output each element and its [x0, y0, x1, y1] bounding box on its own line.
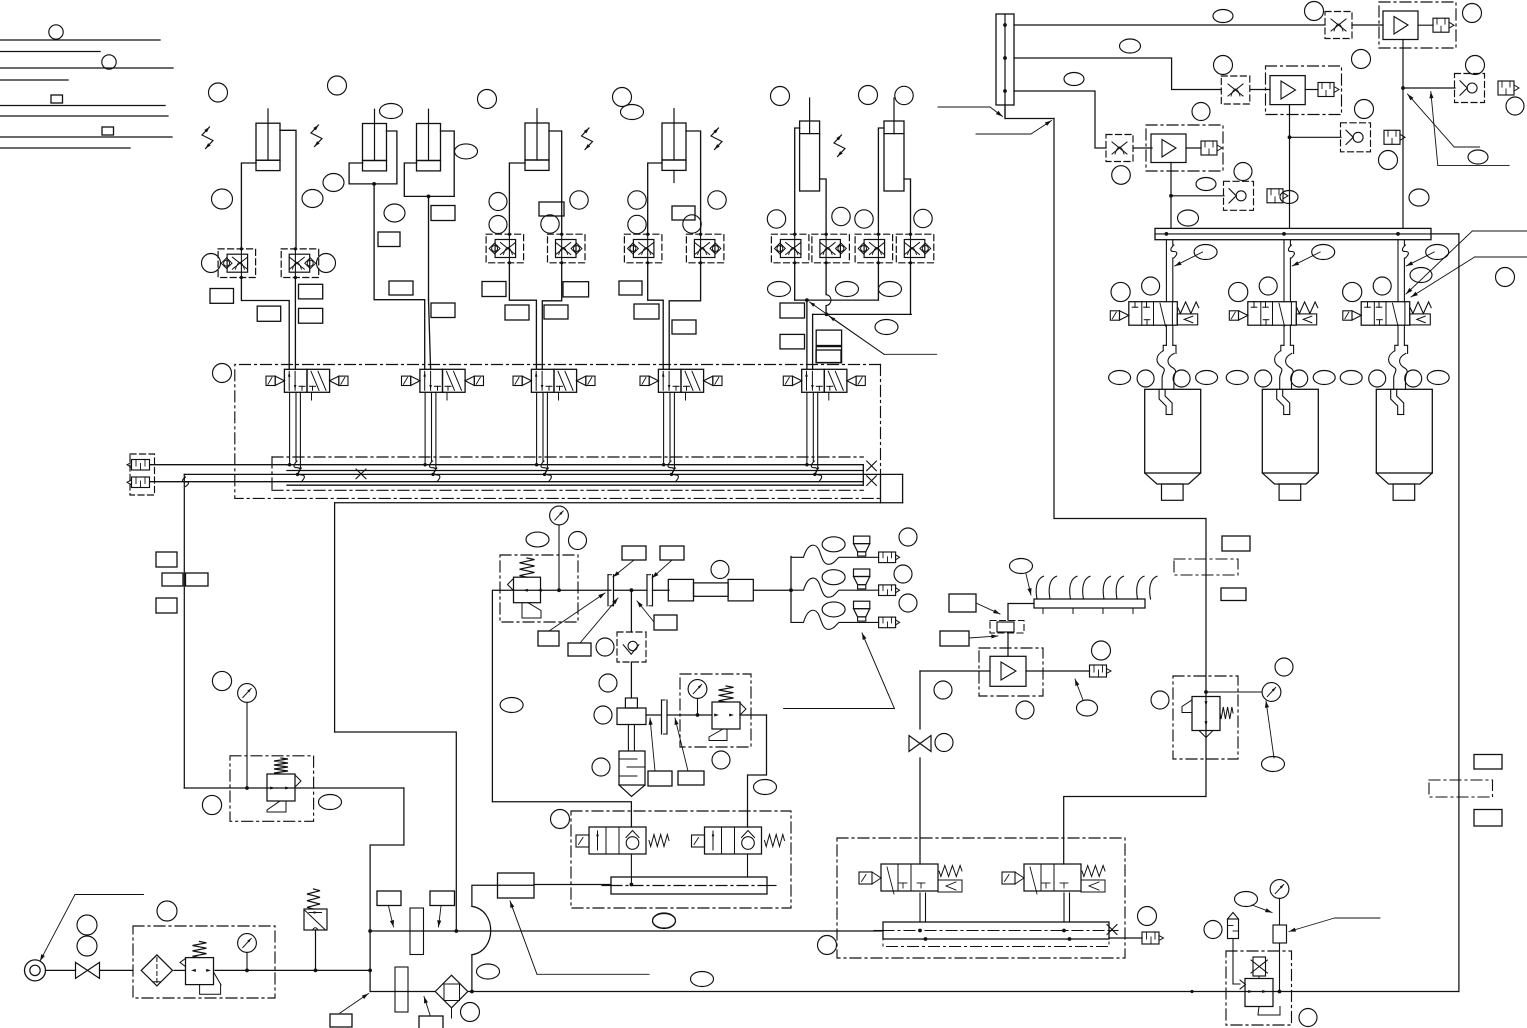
valve VB1 [881, 864, 938, 891]
label [156, 598, 177, 613]
label [377, 891, 401, 906]
line through B2 [500, 589, 611, 591]
label [505, 305, 529, 320]
balloon [599, 674, 617, 692]
plug X [1107, 925, 1117, 935]
wire block to bar [534, 884, 611, 886]
manifold bar MB1 [611, 877, 767, 894]
balloon [1077, 700, 1098, 716]
hose pipes H2 [1283, 325, 1285, 345]
label [186, 573, 209, 586]
balloon [822, 602, 845, 617]
wire [1007, 633, 1009, 656]
valve V1 exhaust stub [311, 392, 313, 400]
label [660, 546, 684, 560]
junction [372, 182, 376, 186]
wire A6 rod port [795, 128, 800, 235]
vacuum valve VS2 [1248, 302, 1297, 326]
FRL vent [214, 972, 222, 985]
manifold bar MB2 [883, 922, 1109, 939]
label [299, 284, 323, 299]
gauge PG6 [1270, 880, 1289, 899]
balloon [628, 191, 646, 209]
branch corner [492, 590, 500, 802]
nozzle silencer NS2 [879, 585, 896, 596]
vibration symbol N2 [311, 125, 322, 147]
muffler M1 [619, 751, 645, 785]
cylinder A4 [525, 123, 549, 160]
balloon [461, 1003, 480, 1022]
balloon [1373, 277, 1391, 295]
balloon [914, 209, 932, 227]
junction [427, 195, 431, 199]
label [672, 206, 695, 220]
booster BST3 [1146, 125, 1223, 171]
balloon [879, 282, 902, 297]
balloon [1138, 907, 1157, 926]
assembly boundary VA [571, 811, 791, 908]
balloon [1426, 245, 1449, 260]
relief branch [315, 930, 317, 970]
balloon [319, 795, 342, 810]
leader [1266, 701, 1274, 758]
gauge stem [558, 525, 560, 590]
balloon [526, 532, 549, 547]
plug X right 1 [867, 461, 877, 471]
wire [754, 589, 791, 591]
balloon [323, 174, 344, 192]
main line to right [468, 991, 1459, 993]
FRL wire [174, 969, 185, 971]
jump arc line [472, 885, 534, 906]
valve V4 exhaust stub [685, 392, 687, 400]
label [419, 1016, 443, 1028]
bus boundary [272, 456, 863, 458]
leader [675, 718, 688, 771]
balloon [613, 88, 632, 107]
air knife feed [1008, 604, 1034, 621]
flow control F6b [812, 234, 850, 263]
wire [631, 589, 647, 591]
leader [652, 560, 672, 578]
wire to check [1171, 195, 1224, 197]
cylinder A3 [417, 124, 441, 161]
wire chain1 [1014, 24, 1325, 26]
booster BST2 [1266, 66, 1342, 115]
wire chain2 [1014, 58, 1221, 90]
balloon [1305, 2, 1324, 21]
air source [25, 960, 46, 981]
balloon [569, 532, 587, 550]
flow control F1a [218, 249, 256, 278]
gauge stem [246, 702, 248, 788]
throttle T2 [1221, 76, 1250, 104]
chain1 output [1402, 40, 1404, 89]
balloon [1137, 370, 1154, 387]
balloon [818, 936, 837, 955]
balloon [768, 282, 791, 297]
cylinder A6 [800, 121, 820, 191]
valve V5 drop pipes [806, 392, 808, 464]
label [1474, 755, 1502, 770]
chain2 output [1289, 105, 1291, 138]
label [780, 303, 805, 318]
balloon [1405, 370, 1422, 387]
wire [630, 662, 632, 698]
gripper tube [1159, 389, 1166, 414]
nozzle silencer NS3 [879, 617, 896, 628]
wire cap sides join [813, 313, 912, 315]
balloon [1111, 282, 1130, 301]
hose pipes H3 [1397, 325, 1399, 345]
gauge wire [1279, 898, 1281, 925]
label [431, 206, 455, 221]
label tall 2 [395, 967, 408, 1012]
wiggle on silencer rail [183, 477, 189, 487]
balloon [1142, 277, 1160, 295]
leader [969, 636, 998, 638]
flow control F5a [624, 234, 662, 263]
cylinder A2 [363, 124, 387, 161]
wire [1279, 943, 1281, 992]
solenoid valve V5 [802, 369, 825, 392]
label [378, 232, 400, 247]
label [299, 308, 323, 323]
booster BST1 [1379, 2, 1456, 48]
hose pipes H1 [1165, 325, 1167, 345]
label [563, 282, 589, 297]
legend note line 4 [0, 79, 68, 81]
rod extension A5 [673, 170, 675, 182]
balloon [1120, 39, 1141, 53]
FRL filter [141, 955, 172, 986]
valve V2 exhaust stub [446, 392, 448, 400]
valve V2 drop pipes [424, 392, 426, 464]
main line lower [370, 991, 435, 993]
balloon [1427, 371, 1449, 385]
balloon [1234, 163, 1252, 181]
leader [424, 997, 430, 1016]
left drop wire [183, 474, 185, 788]
supply line to B1 [184, 787, 404, 789]
balloon [1178, 210, 1199, 226]
supply wire [46, 969, 76, 971]
balloon [489, 193, 507, 211]
union seal U1 [607, 575, 609, 606]
label [210, 289, 234, 304]
bar to riser [1431, 233, 1459, 235]
nozzle silencer NS1 [879, 552, 896, 563]
balloon [1369, 370, 1386, 387]
drop pipe D3 [1397, 240, 1399, 302]
label [654, 615, 677, 630]
wire A2 ports join [349, 163, 397, 184]
balloon [1463, 4, 1482, 23]
leader [976, 603, 1000, 614]
legend balloon 1 [49, 25, 63, 39]
balloon [754, 780, 777, 795]
wire through B3 [680, 714, 712, 716]
pressure gauge PG3 [550, 506, 569, 525]
wire [1133, 147, 1152, 149]
leader to nozzle 3 [784, 708, 895, 710]
label [940, 631, 969, 646]
relief valve RV2 [1228, 919, 1239, 939]
vacuum manifold bar MB3 [1155, 228, 1431, 239]
label [816, 330, 841, 345]
suction gripper SG1 [1145, 389, 1201, 473]
bar outlet [1109, 937, 1142, 939]
leader line A [1472, 230, 1527, 232]
balloon [1259, 277, 1277, 295]
balloon [1506, 97, 1524, 115]
fitting R3 [1201, 141, 1217, 155]
gripper tube [1277, 389, 1284, 414]
solenoid valve V1 [284, 369, 307, 392]
valve VA2 [705, 827, 762, 854]
balloon [213, 364, 232, 383]
balloon [202, 795, 221, 814]
exhaust silencer box [130, 454, 155, 495]
wire A7 cap port [904, 179, 911, 235]
bar boundary [883, 922, 1109, 947]
legend balloon 2 [102, 55, 116, 69]
leader [976, 133, 1031, 135]
balloon [832, 207, 850, 225]
balloon [1112, 166, 1131, 185]
vibration symbol N1 [202, 127, 213, 149]
wire cap join to valve V5 [812, 314, 814, 369]
label [678, 771, 704, 785]
balloon [1343, 282, 1362, 301]
fitting R1 [1433, 18, 1449, 32]
label [568, 643, 591, 656]
air knife nozzles [1036, 576, 1043, 599]
booster BB1 [979, 648, 1043, 696]
label [648, 771, 672, 786]
silencer S1 [132, 460, 150, 471]
leader [650, 718, 655, 771]
balloon [157, 901, 177, 921]
silencer BS2 [1142, 932, 1159, 944]
balloon [1213, 10, 1233, 23]
wire [1250, 89, 1270, 91]
bus rail P1 [287, 464, 863, 466]
leader [613, 560, 634, 577]
leader [389, 906, 394, 927]
label [949, 594, 976, 612]
wire A1 rod port [241, 163, 256, 249]
leader [938, 106, 990, 108]
junction [368, 929, 372, 933]
label dashed [1174, 559, 1238, 575]
balloon [1016, 701, 1034, 719]
legend note line 2 [0, 51, 100, 53]
valve island boundary [235, 365, 881, 499]
flow control F6c [855, 234, 893, 263]
label [619, 281, 642, 295]
valve V3 exhaust stub [558, 392, 560, 400]
balloon [899, 528, 917, 546]
wire down [919, 671, 921, 729]
regulator B3 [712, 702, 740, 729]
legend note line 3 [0, 67, 173, 69]
regulator B1 [267, 774, 295, 801]
wire A7 rod port [878, 128, 884, 235]
leader [1075, 679, 1083, 700]
flow control F4a [486, 234, 523, 263]
balloon [1235, 892, 1258, 907]
balloon [683, 215, 701, 233]
balloon [895, 86, 913, 104]
bar centerline [874, 930, 883, 932]
drop pipe D2 [1283, 240, 1285, 302]
inlet block BL1 [498, 873, 535, 898]
regulator assembly B2 boundary [500, 555, 578, 622]
gauge block [1273, 925, 1287, 943]
fitting [1498, 81, 1514, 95]
legend square 1 [51, 95, 63, 103]
flow control F6d [896, 234, 934, 263]
source leader [75, 894, 144, 896]
manifold header lines [370, 930, 883, 932]
plug X mid [356, 469, 366, 479]
balloon [541, 215, 559, 233]
wire [667, 714, 680, 716]
balloon [1409, 189, 1429, 206]
regulator assembly B4 boundary [1173, 676, 1238, 759]
balloon [934, 681, 952, 699]
label [544, 305, 568, 319]
balloon [1312, 245, 1335, 260]
balloon [711, 561, 729, 579]
balloon [855, 210, 873, 228]
pressure gauge PG4 [688, 680, 707, 699]
balloon [1352, 50, 1371, 69]
balloon [1313, 371, 1335, 385]
leader [637, 601, 654, 622]
union seal U2 [646, 575, 648, 606]
throttle T1 [1325, 12, 1352, 39]
blow nozzle hose 3 [791, 610, 879, 629]
drop leader [1175, 252, 1203, 266]
check valve CV1 [630, 590, 632, 632]
label [430, 891, 455, 906]
chain1 drop [1402, 88, 1404, 228]
vibration symbol N3 [582, 128, 593, 150]
fitting R2 [1318, 83, 1334, 97]
balloon [1196, 371, 1218, 385]
balloon [1466, 56, 1485, 75]
balloon [77, 915, 97, 935]
label [634, 304, 659, 319]
balloon [202, 254, 221, 273]
balloon [836, 282, 859, 297]
balloon [212, 671, 231, 690]
balloon [1214, 56, 1233, 75]
leader to junction [810, 302, 885, 354]
suction gripper SG3 [1376, 389, 1432, 473]
balloon [859, 86, 878, 105]
shutoff X valve XV1 [1253, 957, 1266, 976]
balloon [1291, 370, 1308, 387]
balloon [1196, 178, 1216, 191]
fitting [1267, 189, 1283, 203]
balloon [328, 76, 347, 95]
line filter LF1 [435, 975, 468, 1008]
wire rod join to valve V5 [806, 300, 808, 369]
wire to check [1403, 87, 1455, 89]
balloon [317, 254, 336, 273]
label [816, 347, 841, 363]
balloon [1204, 921, 1222, 939]
balloon [594, 706, 612, 724]
flow control F1b [281, 249, 319, 278]
balloon [489, 216, 507, 234]
junction [454, 929, 458, 933]
pressure gauge PG5 [1262, 683, 1281, 702]
balloon [477, 964, 500, 979]
flow sensor FS1 [990, 621, 1024, 634]
cylinder A5 [662, 123, 686, 160]
legend note line 1 [0, 39, 160, 41]
wire F5a to valve V4 [648, 263, 664, 370]
wire F1b to valve V1 [294, 278, 296, 370]
wire A2 to valve V2 [374, 184, 425, 369]
supply line right [1054, 119, 1206, 865]
regulator B5 body [1245, 979, 1273, 1007]
balloon [1192, 103, 1210, 121]
balloon [1109, 371, 1131, 385]
valve V5 exhaust stub [828, 392, 830, 400]
wire A2 cap port [387, 131, 397, 184]
distribution bar DB1 [996, 14, 1014, 105]
gripper tube [1391, 389, 1398, 414]
wire A6 cap port [820, 179, 827, 235]
balloon [302, 190, 323, 208]
label [162, 573, 183, 586]
leader [340, 994, 369, 1014]
leader line B [1475, 256, 1527, 258]
wire F4b to valve V3 [542, 263, 561, 370]
balloon [1468, 150, 1488, 164]
leader to junction 2 [830, 317, 885, 355]
wire [1258, 976, 1260, 979]
label dashed [1429, 780, 1493, 797]
wire cap pipe with jump [825, 263, 827, 295]
balloon [1229, 282, 1248, 301]
balloon [1410, 268, 1432, 283]
blow nozzle N1 [854, 536, 870, 544]
wire VA2 drop [747, 854, 749, 877]
FRL gauge PG2 [238, 934, 257, 953]
air knife bar [1034, 599, 1145, 608]
wire to VB1 [919, 758, 921, 864]
bus outlet drop [334, 503, 336, 732]
riser wire [1458, 234, 1460, 992]
drain stub [451, 1008, 453, 1018]
balloon [1262, 757, 1285, 772]
leader from right [1335, 917, 1381, 919]
gauge stem [697, 698, 699, 715]
balloon [1379, 151, 1398, 170]
valve V1 drop pipes [289, 392, 291, 464]
fitting [1384, 130, 1400, 144]
leader [439, 906, 442, 927]
balloon [77, 936, 97, 956]
manual valve HV2 [909, 736, 920, 752]
wire to check [1290, 136, 1342, 138]
